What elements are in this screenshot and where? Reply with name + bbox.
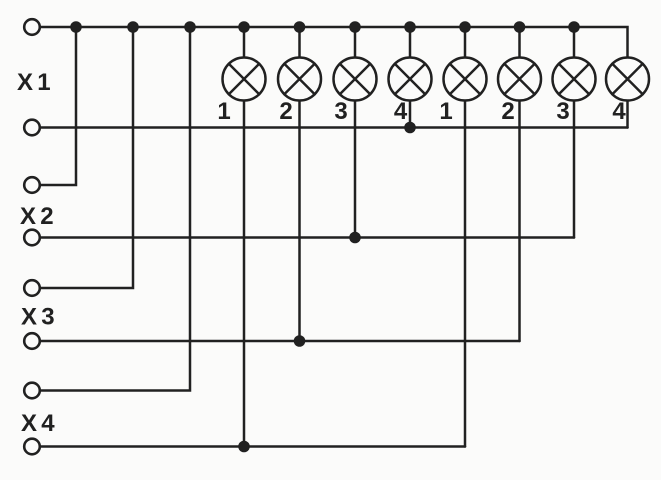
svg-text:X 4: X 4 xyxy=(21,410,55,437)
svg-text:X 2: X 2 xyxy=(20,203,53,230)
svg-text:4: 4 xyxy=(612,98,626,125)
svg-text:1: 1 xyxy=(217,98,230,125)
svg-text:3: 3 xyxy=(334,98,347,125)
svg-text:X 1: X 1 xyxy=(17,69,50,96)
svg-text:4: 4 xyxy=(394,98,408,125)
svg-text:X 3: X 3 xyxy=(21,304,54,331)
svg-text:2: 2 xyxy=(501,98,514,125)
svg-text:3: 3 xyxy=(556,98,569,125)
svg-text:1: 1 xyxy=(439,98,452,125)
svg-text:2: 2 xyxy=(279,98,292,125)
